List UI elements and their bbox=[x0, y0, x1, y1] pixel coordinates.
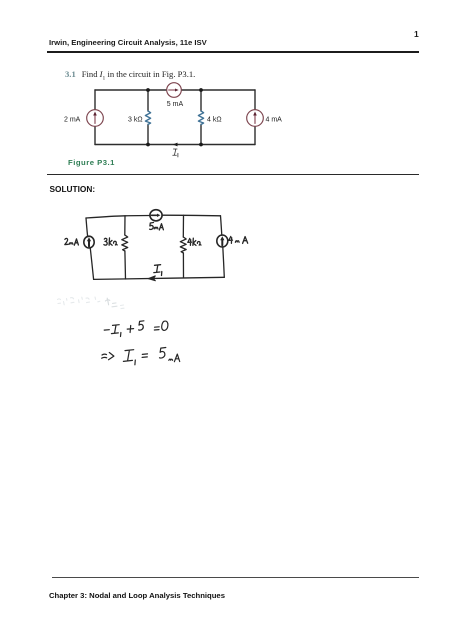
running head bbox=[49, 38, 207, 47]
current source 2mA bbox=[87, 110, 104, 127]
wire bottom bbox=[95, 144, 255, 146]
hand current arrow I1 on bottom wire bbox=[148, 276, 155, 281]
resistor R=4k zigzag bbox=[198, 111, 203, 125]
node dot top of 4k bbox=[199, 88, 203, 92]
wire top-left segment bbox=[95, 89, 167, 91]
hand label 5mA bbox=[150, 223, 164, 231]
handwritten equation => I1 = 5 mA bbox=[102, 348, 180, 365]
node dot bottom of 3k bbox=[146, 143, 150, 147]
section rule bbox=[47, 174, 419, 175]
header rule bbox=[47, 51, 419, 53]
label I1 bbox=[173, 149, 178, 157]
current source 4mA bbox=[247, 110, 264, 127]
figure caption bbox=[68, 158, 115, 167]
hand resistor 3k branch bbox=[124, 216, 127, 279]
hand label 4kOhm bbox=[188, 238, 201, 245]
wire hand left bbox=[86, 218, 94, 279]
hand resistor 3k zigzag bbox=[122, 235, 128, 251]
faint erased pencil marks bbox=[58, 297, 125, 309]
hand label 4mA bbox=[229, 236, 248, 243]
resistor 4k branch wires bbox=[200, 90, 202, 145]
wire left branch bbox=[94, 90, 96, 145]
wire top-right segment bbox=[181, 89, 255, 91]
page number bbox=[414, 29, 419, 39]
node dot bottom of 4k bbox=[199, 143, 203, 147]
hand current source 2mA bbox=[84, 236, 94, 248]
hand current source 5mA bbox=[150, 210, 162, 221]
hand label 3kOhm bbox=[104, 238, 117, 245]
footer rule bbox=[52, 577, 419, 578]
resistor 3k branch wires bbox=[147, 90, 149, 145]
hand resistor 4k branch bbox=[182, 215, 184, 277]
footer text bbox=[49, 591, 225, 600]
problem statement 3.1 bbox=[65, 69, 195, 82]
hand resistor 4k zigzag bbox=[180, 237, 186, 253]
wire right branch bbox=[254, 90, 256, 145]
resistor R=3k zigzag bbox=[145, 111, 150, 125]
handwritten equation -I1 + 5 = 0 bbox=[104, 321, 168, 337]
current arrow I1 on bottom wire bbox=[173, 143, 178, 147]
wire hand top bbox=[86, 215, 221, 218]
hand label 2mA bbox=[65, 238, 79, 245]
wire hand right bbox=[221, 216, 225, 277]
current source 5mA (top) bbox=[167, 83, 182, 98]
wire hand bottom bbox=[94, 277, 225, 279]
SOLUTION heading bbox=[50, 184, 96, 194]
node dot top of 3k bbox=[146, 88, 150, 92]
hand current source 4mA bbox=[217, 235, 228, 247]
hand label I1 bbox=[154, 265, 162, 276]
